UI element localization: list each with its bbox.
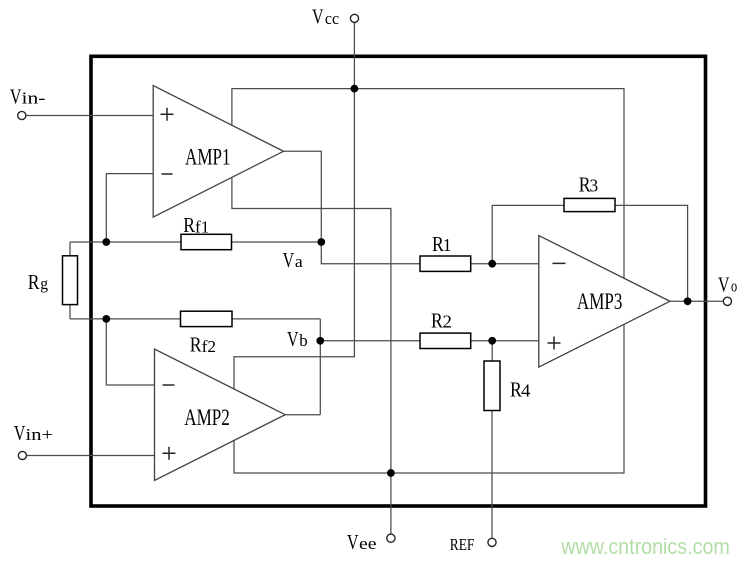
svg-text:AMP1: AMP1 bbox=[185, 145, 231, 170]
svg-text:V: V bbox=[718, 273, 730, 297]
svg-text:V: V bbox=[287, 327, 299, 351]
svg-text:ee: ee bbox=[359, 534, 377, 553]
svg-text:V: V bbox=[14, 421, 26, 445]
svg-text:R: R bbox=[431, 309, 443, 333]
svg-text:R: R bbox=[190, 333, 202, 357]
svg-text:f2: f2 bbox=[202, 337, 217, 356]
svg-text:a: a bbox=[295, 252, 303, 271]
svg-text:V: V bbox=[283, 248, 295, 272]
svg-text:in+: in+ bbox=[26, 425, 54, 444]
svg-text:cc: cc bbox=[325, 9, 340, 28]
svg-text:in-: in- bbox=[22, 88, 46, 107]
svg-text:b: b bbox=[299, 331, 307, 350]
svg-text:AMP3: AMP3 bbox=[577, 289, 623, 314]
svg-text:V: V bbox=[312, 5, 324, 29]
svg-text:V: V bbox=[10, 84, 22, 108]
svg-text:f1: f1 bbox=[195, 217, 209, 236]
svg-text:2: 2 bbox=[443, 312, 452, 332]
svg-text:www.cntronics.com: www.cntronics.com bbox=[560, 534, 729, 559]
svg-text:V: V bbox=[347, 530, 359, 554]
svg-text:R: R bbox=[28, 270, 40, 294]
svg-text:3: 3 bbox=[590, 176, 599, 196]
svg-text:REF: REF bbox=[450, 535, 475, 554]
svg-text:o: o bbox=[731, 277, 737, 296]
svg-text:4: 4 bbox=[521, 380, 530, 400]
svg-text:R: R bbox=[183, 213, 195, 237]
svg-text:AMP2: AMP2 bbox=[184, 405, 230, 430]
svg-text:g: g bbox=[40, 274, 48, 293]
svg-text:1: 1 bbox=[443, 235, 452, 255]
